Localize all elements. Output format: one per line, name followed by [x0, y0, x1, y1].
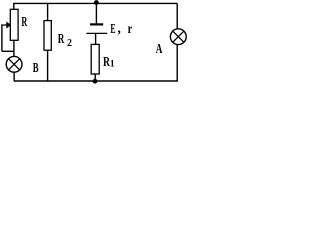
wire resistor R2 top lead: [47, 3, 49, 20]
svg-text:R: R: [21, 15, 27, 30]
wire right edge upper: [176, 3, 178, 29]
node junction dot bottom: [93, 79, 98, 84]
svg-text:R: R: [58, 32, 65, 47]
wire R1 bottom lead: [94, 74, 96, 81]
wire bottom rail: [14, 80, 178, 82]
rheostat wiper arrow: [2, 23, 10, 28]
svg-text:A: A: [156, 41, 163, 56]
battery E,r long plate: [87, 32, 108, 34]
wire resistor R2 bottom lead: [47, 50, 49, 81]
wire lamp B bottom lead: [13, 72, 15, 81]
resistor R: [10, 9, 18, 40]
lamp B: [6, 56, 22, 72]
wire resistor R bottom lead to lamp B: [13, 40, 15, 56]
wire left jog horizontal: [2, 50, 14, 52]
svg-text:r: r: [128, 22, 133, 37]
svg-text:1: 1: [110, 60, 115, 70]
svg-text:B: B: [33, 61, 39, 76]
node junction dot top: [94, 0, 99, 5]
svg-text:2: 2: [67, 38, 72, 49]
battery E,r short plate: [90, 23, 103, 25]
resistor R1: [91, 44, 99, 74]
resistor R2: [44, 21, 51, 51]
svg-text:E: E: [110, 22, 115, 37]
wire battery to R1: [95, 34, 97, 44]
wire top rail: [13, 2, 177, 4]
wire battery top lead: [95, 3, 97, 23]
wire resistor R top lead: [13, 3, 15, 9]
lamp A: [170, 29, 186, 45]
svg-text:,: ,: [117, 21, 121, 36]
wire right edge lower: [176, 45, 178, 81]
wire left branch vertical: [1, 24, 3, 51]
